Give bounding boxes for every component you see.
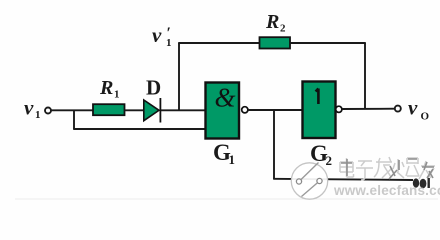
- wire diode to G1 input: [161, 109, 205, 111]
- faint scan line bottom: [15, 198, 438, 200]
- svg-text:v: v: [24, 96, 34, 120]
- label v1': [152, 23, 172, 49]
- wire bypass vertical at junction: [73, 110, 75, 129]
- watermark chinese text (glyph-like grey strokes): [340, 157, 435, 180]
- svg-text:www.elecfans.com: www.elecfans.com: [333, 183, 440, 198]
- svg-text:R: R: [99, 77, 113, 99]
- output terminal: [395, 106, 401, 112]
- wire top left to R2: [178, 42, 260, 44]
- char you: [419, 161, 435, 179]
- op gate G1 (NAND): [206, 83, 240, 139]
- diode D: [144, 98, 161, 123]
- wire right vertical down to output line: [364, 43, 366, 109]
- svg-text:v: v: [152, 23, 162, 47]
- wire G1 bubble to G2: [248, 109, 303, 111]
- char zi: [356, 161, 373, 180]
- svg-text:v: v: [408, 96, 418, 120]
- resistor R2: [260, 37, 291, 48]
- svg-text:R: R: [265, 11, 279, 33]
- darker accents on watermark: [341, 159, 434, 179]
- node v1 input label: [24, 96, 41, 122]
- wire R2 to right corner: [290, 42, 366, 44]
- wire G2 bubble to output terminal: [342, 108, 395, 110]
- gate G2 (inverter): [303, 82, 336, 139]
- G1 output bubble: [242, 107, 248, 113]
- svg-text:O: O: [421, 111, 430, 123]
- watermark logo circle: [291, 163, 327, 200]
- char shao: [393, 158, 419, 178]
- char dian: [340, 158, 354, 177]
- dark blob marks at end of bottom wire: [413, 178, 430, 188]
- label G1: [213, 140, 235, 167]
- char fa: [374, 157, 392, 178]
- bottom wire: [273, 179, 413, 180]
- wire R1 to diode: [125, 109, 145, 111]
- label vO: [408, 96, 430, 123]
- svg-text:1: 1: [229, 152, 236, 167]
- wire v1 terminal to R1: [52, 109, 94, 111]
- svg-text:D: D: [146, 76, 161, 100]
- node v1' vertical wire: [178, 43, 180, 110]
- G2 output bubble: [336, 106, 342, 112]
- svg-text:2: 2: [280, 23, 286, 35]
- junction vertical wire down: [273, 110, 275, 179]
- label G2: [310, 141, 332, 168]
- input terminal: [45, 108, 51, 114]
- resistor R1: [93, 104, 125, 115]
- svg-text:1: 1: [114, 89, 120, 101]
- svg-text:2: 2: [326, 153, 333, 168]
- wire bypass horizontal to G1 lower input: [73, 128, 205, 130]
- label R2: [265, 11, 286, 35]
- label R1: [99, 77, 120, 101]
- svg-text:1: 1: [35, 109, 41, 121]
- svg-text:1: 1: [166, 37, 172, 49]
- svg-text:&: &: [215, 83, 236, 113]
